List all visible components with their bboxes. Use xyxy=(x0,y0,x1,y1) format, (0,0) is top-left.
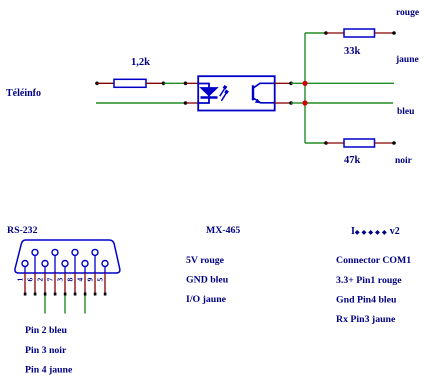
junction node A xyxy=(302,81,307,86)
connector J1 pin 4 external pin xyxy=(84,273,86,293)
connector J1 pin 6 external pin xyxy=(34,273,36,293)
svg-text:I/O jaune: I/O jaune xyxy=(186,294,227,305)
resistor R1 body xyxy=(114,79,146,87)
connector J1 pin 3 external pin xyxy=(64,273,66,293)
connector J1 pin 1 lead stub xyxy=(24,266,26,273)
svg-text:5: 5 xyxy=(96,278,105,282)
connector J1 pin 4 lead stub xyxy=(84,266,86,273)
resistor R1 pin 1 endpoint dot xyxy=(95,82,99,86)
svg-text:rouge: rouge xyxy=(396,8,419,18)
optocoupler U1 LED triangle xyxy=(201,88,218,96)
resistor R1 pin 2 xyxy=(146,82,163,84)
connector J1 pin 9 external pin xyxy=(94,273,96,293)
svg-text:3.3+ Pin1 rouge: 3.3+ Pin1 rouge xyxy=(336,275,402,286)
svg-text:1: 1 xyxy=(16,278,25,282)
svg-text:Pin 4 jaune: Pin 4 jaune xyxy=(25,365,73,376)
optocoupler U1 emitter pin endpoint dot xyxy=(289,101,293,105)
connector J1 pin 5 lead stub xyxy=(104,266,106,273)
svg-text:Gnd Pin4 bleu: Gnd Pin4 bleu xyxy=(336,295,397,306)
wire pin 3 noir xyxy=(64,296,66,314)
resistor R2 body xyxy=(344,29,375,37)
svg-text:47k: 47k xyxy=(344,155,361,166)
connector J1 pin 1 endpoint tick xyxy=(24,293,27,296)
wire to resistor R2 xyxy=(305,32,325,34)
wire vertical bus node A to 33k and node B to 47k xyxy=(304,33,306,143)
wire pin 4 jaune xyxy=(84,296,86,314)
svg-text:8: 8 xyxy=(66,278,75,282)
optocoupler U1 emitter arrowhead xyxy=(255,99,260,104)
connector J1 pin 2 lead stub xyxy=(44,266,46,273)
resistor R3 pin 2 xyxy=(375,142,394,144)
resistor R2 pin 2 endpoint dot xyxy=(392,31,396,35)
connector J1 pin 2 circle xyxy=(42,261,48,267)
connector J1 pin 2 external pin xyxy=(44,273,46,293)
resistor R3 pin 1 xyxy=(326,142,344,144)
resistor R1 pin 1 xyxy=(97,82,114,84)
wire jaune net from node A xyxy=(305,82,394,84)
svg-text:7: 7 xyxy=(46,278,55,282)
connector J1 pin 1 external pin xyxy=(24,273,26,293)
wire bleu net from node B xyxy=(305,102,393,104)
connector J1 pin 6 circle xyxy=(32,249,38,255)
connector J1 pin 1 circle xyxy=(22,261,28,267)
svg-text:I◆◆◆◆◆v2: I◆◆◆◆◆v2 xyxy=(351,226,400,237)
optocoupler U1 light arrow 1 xyxy=(220,85,228,96)
connector J1 pin 7 lead stub xyxy=(54,255,56,273)
resistor R3 pin 2 endpoint dot xyxy=(392,141,396,145)
optocoupler U1 collector pin endpoint dot xyxy=(289,82,293,86)
optocoupler U1 phototransistor collector xyxy=(253,83,274,88)
connector J1 pin 9 lead stub xyxy=(94,255,96,273)
svg-text:9: 9 xyxy=(86,278,95,282)
connector J1 DB9 shell outline xyxy=(15,240,120,273)
connector J1 pin 3 endpoint tick xyxy=(64,293,67,296)
connector J1 pin 8 external pin xyxy=(74,273,76,293)
connector J1 pin 2 endpoint tick xyxy=(44,293,47,296)
svg-text:Pin 3 noir: Pin 3 noir xyxy=(25,345,67,356)
svg-text:Téléinfo: Téléinfo xyxy=(6,88,41,99)
svg-text:6: 6 xyxy=(26,278,35,282)
svg-text:Connector COM1: Connector COM1 xyxy=(336,255,411,266)
connector J1 pin 8 lead stub xyxy=(74,255,76,273)
optocoupler U1 phototransistor base bar xyxy=(252,85,254,100)
svg-text:GND bleu: GND bleu xyxy=(186,275,229,286)
svg-text:jaune: jaune xyxy=(395,55,419,65)
wire to resistor R3 xyxy=(305,142,325,144)
svg-text:MX-465: MX-465 xyxy=(206,225,240,236)
connector J1 pin 8 endpoint tick xyxy=(74,293,77,296)
wire U1 collector to node A xyxy=(291,82,305,84)
optocoupler U1 emitter pin xyxy=(275,102,291,104)
connector J1 pin 5 circle xyxy=(102,261,108,267)
optocoupler U1 LED cathode bar xyxy=(201,96,218,99)
connector J1 pin 5 external pin xyxy=(104,273,106,293)
optocoupler U1 light arrow 2 xyxy=(221,90,229,101)
svg-text:1,2k: 1,2k xyxy=(131,57,150,68)
connector J1 pin 3 lead stub xyxy=(64,266,66,273)
resistor R2 pin 1 xyxy=(326,32,344,34)
svg-text:bleu: bleu xyxy=(397,107,415,117)
connector J1 pin 9 circle xyxy=(92,249,98,255)
connector J1 pin 8 circle xyxy=(72,249,78,255)
resistor R2 pin 1 endpoint dot xyxy=(324,31,328,35)
optocoupler U1 collector pin xyxy=(275,82,291,84)
optocoupler U1 phototransistor emitter xyxy=(253,98,274,103)
connector J1 pin 7 external pin xyxy=(54,273,56,293)
resistor R2 pin 2 xyxy=(375,32,394,34)
connector J1 pin 7 circle xyxy=(52,249,58,255)
svg-text:4: 4 xyxy=(76,278,85,282)
svg-text:5V rouge: 5V rouge xyxy=(186,255,225,266)
junction node B xyxy=(302,100,307,105)
connector J1 pin 4 endpoint tick xyxy=(84,293,87,296)
optocoupler U1 cathode pin xyxy=(186,102,200,104)
optocoupler U1 body outline xyxy=(198,76,275,110)
optocoupler U1 LED anode lead xyxy=(199,84,210,104)
resistor R1 pin 2 endpoint dot xyxy=(162,82,166,86)
connector J1 pin 4 circle xyxy=(82,261,88,267)
resistor R3 body xyxy=(344,139,375,147)
connector J1 pin 6 endpoint tick xyxy=(34,293,37,296)
connector J1 pin 7 endpoint tick xyxy=(54,293,57,296)
svg-text:33k: 33k xyxy=(344,46,361,57)
svg-text:2: 2 xyxy=(36,278,45,282)
connector J1 pin 6 lead stub xyxy=(34,255,36,273)
wire R1 to U1 anode xyxy=(164,82,185,84)
wire pin 2 bleu xyxy=(44,296,46,314)
optocoupler U1 anode pin endpoint dot xyxy=(184,82,188,86)
connector J1 pin 5 endpoint tick xyxy=(104,293,107,296)
svg-text:Pin 2 bleu: Pin 2 bleu xyxy=(25,325,67,336)
svg-text:noir: noir xyxy=(395,156,413,166)
optocoupler U1 anode pin xyxy=(186,82,200,84)
svg-text:3: 3 xyxy=(56,278,65,282)
svg-text:Rx Pin3 jaune: Rx Pin3 jaune xyxy=(336,314,396,325)
connector J1 pin 3 circle xyxy=(62,261,68,267)
wire Téléinfo return to U1 cathode xyxy=(96,102,185,104)
wire U1 emitter to node B xyxy=(291,102,305,104)
svg-text:RS-232: RS-232 xyxy=(7,225,38,236)
optocoupler U1 cathode pin endpoint dot xyxy=(184,101,188,105)
resistor R3 pin 1 endpoint dot xyxy=(324,141,328,145)
connector J1 pin 9 endpoint tick xyxy=(94,293,97,296)
